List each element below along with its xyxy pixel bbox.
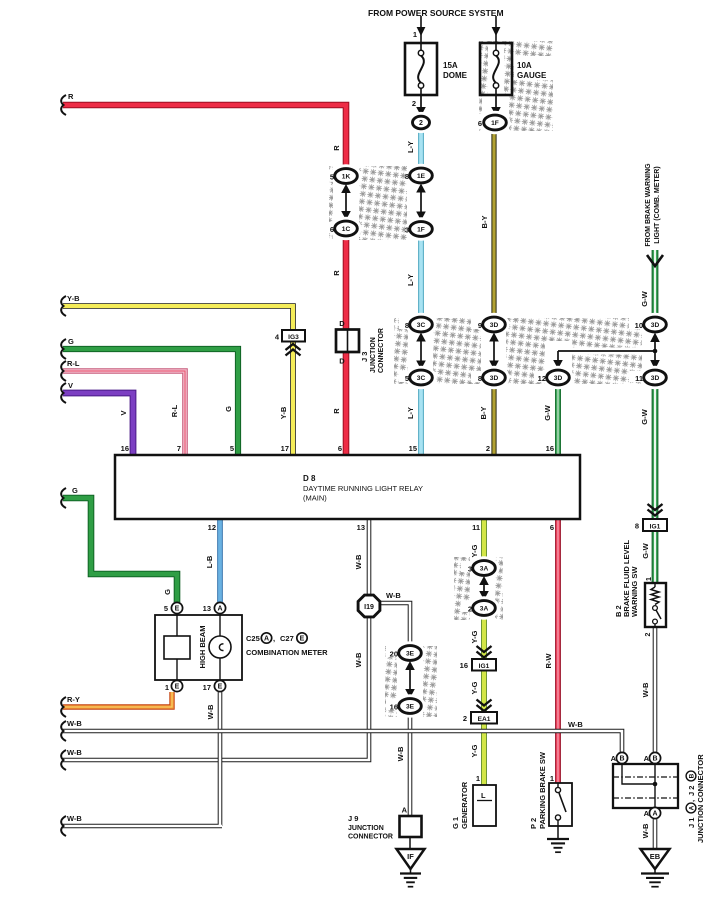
hatch patch of J3 band connectors 3C/3D — [394, 318, 667, 384]
wire V (violet) from left to relay pin 16 — [63, 393, 133, 455]
svg-text:1: 1 — [413, 30, 417, 39]
svg-text:L-Y: L-Y — [406, 274, 415, 286]
rotated wire name labels — [119, 141, 650, 838]
svg-text:W-B: W-B — [67, 748, 82, 757]
svg-text:11: 11 — [635, 374, 643, 383]
svg-text:G: G — [72, 486, 78, 495]
svg-text:D: D — [339, 319, 345, 328]
wire R (red) from left to relay pin 6 — [63, 105, 346, 455]
svg-text:1F: 1F — [417, 226, 425, 233]
svg-text:HIGH BEAM: HIGH BEAM — [198, 626, 207, 669]
svg-text:16: 16 — [460, 661, 468, 670]
svg-text:Y-G: Y-G — [470, 630, 479, 643]
svg-text:L-Y: L-Y — [406, 141, 415, 153]
svg-text:W-B: W-B — [354, 652, 363, 667]
wire W-B from junction connector A to ground EB — [653, 818, 658, 849]
svg-text:17: 17 — [203, 683, 211, 692]
link wire from 3D pin 12 to G-W line — [558, 349, 657, 354]
ground triangle IF — [397, 849, 425, 887]
svg-text:E: E — [218, 684, 223, 691]
relay top pin numbers — [121, 444, 554, 453]
svg-text:IG3: IG3 — [288, 334, 299, 341]
junction arrow between 3C connectors — [416, 333, 426, 370]
svg-text:3: 3 — [468, 565, 472, 574]
connector 5 3C on wire L-Y — [405, 368, 435, 388]
svg-text:2: 2 — [486, 444, 490, 453]
connector 11 3D on wire G-W — [635, 368, 669, 388]
svg-text:5: 5 — [230, 444, 234, 453]
wire B-Y (black-yellow) from fuse GAUGE through 3D to relay pin 2 — [491, 128, 496, 455]
connector 16 IG1 on wire Y-G — [460, 646, 496, 671]
svg-text:8: 8 — [635, 522, 639, 531]
wire W-B combination meter pin 17 down to left (horizontal 3) — [63, 692, 222, 826]
svg-text:Y-B: Y-B — [279, 406, 288, 419]
incoming arrow FROM BRAKE WARNING LIGHT — [645, 163, 663, 266]
svg-text:GENERATOR: GENERATOR — [460, 781, 469, 829]
svg-text:C27: C27 — [280, 634, 294, 643]
svg-text:J 3: J 3 — [360, 352, 369, 362]
svg-text:W-B: W-B — [641, 823, 650, 838]
svg-text:W-B: W-B — [67, 814, 82, 823]
connector 2 below DOME fuse — [410, 95, 432, 131]
svg-text:A: A — [611, 754, 617, 763]
svg-text:W-B: W-B — [396, 746, 405, 761]
svg-text:V: V — [68, 381, 73, 390]
svg-text:9: 9 — [478, 321, 482, 330]
connector 3 1F on wire L-Y — [405, 219, 435, 239]
svg-text:15: 15 — [409, 444, 417, 453]
junction connector I19 — [358, 595, 380, 617]
svg-text:3E: 3E — [406, 703, 415, 710]
svg-text:WARNING SW: WARNING SW — [630, 566, 639, 617]
svg-text:COMBINATION METER: COMBINATION METER — [246, 648, 328, 657]
svg-text:J 2: J 2 — [687, 786, 696, 796]
svg-text:8: 8 — [405, 321, 409, 330]
svg-text:1: 1 — [550, 774, 554, 783]
svg-text:1K: 1K — [342, 173, 351, 180]
svg-text:Y-G: Y-G — [470, 681, 479, 694]
svg-text:2: 2 — [468, 605, 472, 614]
svg-text:A: A — [264, 636, 269, 643]
svg-text:E: E — [300, 636, 305, 643]
svg-text:G-W: G-W — [641, 542, 650, 558]
svg-text:10: 10 — [635, 321, 643, 330]
label J1 A, J2 B JUNCTION CONNECTOR — [686, 754, 705, 843]
svg-text:JUNCTION CONNECTOR: JUNCTION CONNECTOR — [696, 754, 705, 843]
svg-text:W-B: W-B — [354, 554, 363, 569]
svg-text:8: 8 — [405, 172, 409, 181]
svg-text:(MAIN): (MAIN) — [303, 494, 327, 503]
connector 20 3E on W-B branch — [390, 643, 424, 663]
svg-text:16: 16 — [121, 444, 129, 453]
svg-text:E: E — [175, 684, 180, 691]
svg-text:W-B: W-B — [206, 704, 215, 719]
svg-text:J 9: J 9 — [348, 814, 358, 823]
svg-text:G-W: G-W — [640, 290, 649, 306]
svg-text:3E: 3E — [406, 650, 415, 657]
svg-text:D: D — [339, 357, 345, 366]
junction arrow between 1E and 1F — [416, 184, 426, 221]
svg-text:A: A — [652, 811, 657, 818]
svg-text:12: 12 — [208, 523, 216, 532]
connector 2 3A on wire Y-G — [468, 598, 498, 618]
svg-text:C25: C25 — [246, 634, 260, 643]
parking brake switch P2 — [529, 751, 572, 829]
hatch patch behind 3A connectors — [454, 557, 503, 620]
svg-text:2: 2 — [419, 120, 423, 127]
arrow from power source into DOME fuse — [417, 16, 426, 43]
generator G1 — [451, 774, 496, 829]
svg-text:15A: 15A — [443, 61, 458, 70]
svg-text:J 1: J 1 — [687, 818, 696, 828]
svg-text:EB: EB — [650, 852, 661, 861]
svg-text:3D: 3D — [490, 375, 499, 382]
wire R-Y (red-yellow) from left to combination meter pin 1 — [63, 692, 172, 707]
connector 8 3C on wire L-Y — [405, 315, 435, 335]
svg-text:W-B: W-B — [568, 720, 583, 729]
junction arrow between 3A connectors — [479, 576, 489, 600]
connector 3 3A on wire Y-G — [468, 558, 498, 578]
svg-text:6: 6 — [550, 523, 554, 532]
svg-text:EA1: EA1 — [478, 716, 491, 723]
junction connector J1/J2 pin A bottom — [644, 807, 661, 818]
svg-text:B: B — [688, 773, 695, 778]
svg-text:DOME: DOME — [443, 71, 468, 80]
hatch patch behind GAUGE fuse — [479, 41, 553, 131]
svg-text:2: 2 — [463, 714, 467, 723]
svg-text:,: , — [273, 634, 275, 643]
svg-text:L-Y: L-Y — [406, 407, 415, 419]
svg-text:CONNECTOR: CONNECTOR — [378, 328, 385, 373]
svg-text:LIGHT (COMB. METER): LIGHT (COMB. METER) — [654, 166, 661, 243]
connector 5 1K on wire R — [330, 166, 360, 186]
junction arrow between 3D connectors — [489, 333, 499, 370]
svg-text:A: A — [402, 806, 408, 815]
svg-text:3D: 3D — [490, 322, 499, 329]
junction connector J3 on wire R — [336, 319, 385, 373]
combination meter pin 13 A — [203, 602, 226, 613]
svg-text:G: G — [224, 406, 233, 412]
svg-text:R-L: R-L — [170, 404, 179, 417]
combination meter pin 5 E — [164, 602, 183, 613]
svg-text:6: 6 — [478, 119, 482, 128]
junction connector J1/J2 pin B left — [611, 752, 628, 763]
combination meter HIGH BEAM unit C25/C27 — [155, 615, 242, 680]
connector 2 EA1 on wire Y-G — [463, 700, 497, 724]
connector 8 IG1 on wire G-W — [635, 504, 667, 531]
hatch patch behind connectors 1K/1C and 1E/1F — [329, 166, 407, 240]
junction arrow between 1K and 1C — [341, 184, 351, 220]
svg-text:R: R — [332, 145, 341, 151]
connector 8 1E on wire L-Y — [405, 166, 435, 186]
horizontal W-B labels — [386, 591, 583, 729]
svg-text:5: 5 — [405, 374, 409, 383]
junction arrow between 3E connectors — [405, 661, 415, 698]
svg-text:17: 17 — [281, 444, 289, 453]
svg-text:16: 16 — [546, 444, 554, 453]
svg-text:A: A — [217, 606, 222, 613]
svg-text:11: 11 — [472, 523, 480, 532]
svg-text:12: 12 — [538, 374, 546, 383]
wire name labels at left margin — [67, 92, 82, 823]
svg-text:I19: I19 — [364, 604, 374, 611]
wire W-B from brake fluid switch B2 to junction connector B — [653, 627, 658, 753]
svg-text:GAUGE: GAUGE — [517, 71, 547, 80]
svg-text:G: G — [68, 337, 74, 346]
svg-text:7: 7 — [177, 444, 181, 453]
svg-text:G: G — [163, 589, 172, 595]
svg-text:W-B: W-B — [641, 682, 650, 697]
wire W-B from I19 down and left to frame (horizontal 2) — [63, 617, 369, 760]
svg-text:10A: 10A — [517, 61, 532, 70]
svg-text:3D: 3D — [651, 322, 660, 329]
hatch patch behind 3E connectors — [385, 646, 437, 717]
svg-text:JUNCTION: JUNCTION — [348, 825, 384, 832]
svg-text:Y-G: Y-G — [470, 744, 479, 757]
wire G-W (green-white) from 3D connector 12 to relay pin 16 — [555, 385, 561, 455]
svg-text:3D: 3D — [554, 375, 563, 382]
arrow from power source into GAUGE fuse — [492, 16, 501, 43]
connector 10 3D on wire G-W — [635, 315, 669, 335]
svg-text:3: 3 — [405, 226, 409, 235]
svg-text:IG1: IG1 — [650, 523, 661, 530]
svg-text:G-W: G-W — [640, 408, 649, 424]
wire G-W (green-white) from brake warning light down right side to IG1 and B2 — [652, 250, 659, 583]
connector 9 3D on wire B-Y — [478, 315, 508, 335]
svg-text:W-B: W-B — [386, 591, 401, 600]
svg-text:A: A — [644, 809, 650, 818]
svg-text:L-B: L-B — [205, 555, 214, 568]
svg-text:JUNCTION: JUNCTION — [370, 337, 377, 373]
svg-text:R: R — [332, 408, 341, 414]
wire Y-G (yellow-green) relay pin 11 through 3A, IG1, EA1 to generator — [481, 519, 487, 785]
svg-text:3C: 3C — [417, 322, 426, 329]
svg-text:3D: 3D — [651, 375, 660, 382]
svg-text:W-B: W-B — [67, 719, 82, 728]
svg-text:R-Y: R-Y — [67, 695, 80, 704]
wire R-W (red-white) relay pin 6 to parking brake switch — [555, 519, 561, 783]
wire L-Y (blue-yellow) from fuse DOME through 1E/1F and 3C to relay pin 15 — [418, 128, 424, 455]
svg-text:16: 16 — [390, 703, 398, 712]
svg-text:R-L: R-L — [67, 359, 80, 368]
svg-text:FROM BRAKE WARNING: FROM BRAKE WARNING — [645, 163, 652, 247]
relay bottom pin numbers — [208, 523, 554, 532]
wire G (green) from left to relay pin 5 — [63, 349, 238, 455]
relay D8 DAYTIME RUNNING LIGHT RELAY (MAIN) — [115, 455, 580, 519]
svg-text:20: 20 — [390, 650, 398, 659]
junction connector J9 — [348, 806, 422, 850]
svg-text:5: 5 — [164, 604, 168, 613]
svg-text:3C: 3C — [417, 375, 426, 382]
wire L-B (blue-black) relay pin 12 to combination meter pin 13 — [217, 519, 223, 602]
svg-text:G 1: G 1 — [451, 817, 460, 829]
wire Y-B (yellow-black) from left to IG3 and relay pin 17 — [63, 306, 293, 455]
connector 16 3E on W-B branch — [390, 696, 424, 716]
connector 6 1C on wire R — [330, 219, 360, 239]
svg-text:1: 1 — [476, 774, 480, 783]
combination meter pin 17 E — [203, 680, 226, 692]
svg-text:R: R — [332, 270, 341, 276]
svg-text:2: 2 — [412, 99, 416, 108]
svg-text:1F: 1F — [491, 120, 499, 127]
svg-text:1: 1 — [165, 683, 169, 692]
connector 6 1F below GAUGE fuse — [478, 95, 509, 133]
junction connector J1/J2 body — [613, 764, 678, 808]
svg-text:V: V — [119, 410, 128, 415]
wire W-B relay pin 13 down to junction I19 — [367, 519, 372, 595]
svg-text:G-W: G-W — [543, 404, 552, 420]
svg-text:B-Y: B-Y — [480, 216, 489, 229]
fuse 15A DOME — [405, 30, 468, 108]
svg-text:3A: 3A — [480, 565, 489, 572]
svg-text:PARKING BRAKE SW: PARKING BRAKE SW — [538, 751, 547, 829]
svg-text:A: A — [644, 754, 650, 763]
white halos over hatch — [325, 43, 667, 719]
svg-text:B: B — [652, 756, 657, 763]
svg-text:5: 5 — [330, 173, 334, 182]
ground triangle EB — [641, 849, 670, 887]
ground below parking brake switch — [547, 826, 569, 852]
svg-text:A: A — [688, 805, 695, 810]
svg-text:13: 13 — [203, 604, 211, 613]
svg-text:3A: 3A — [480, 605, 489, 612]
svg-text:13: 13 — [357, 523, 365, 532]
svg-text:D 8: D 8 — [303, 474, 316, 483]
svg-text:DAYTIME RUNNING LIGHT RELAY: DAYTIME RUNNING LIGHT RELAY — [303, 484, 423, 493]
svg-text:IG1: IG1 — [479, 663, 490, 670]
connector 8 3D on wire B-Y — [478, 368, 508, 388]
svg-text:IF: IF — [407, 852, 414, 861]
wire continuation braces at left margin — [61, 95, 66, 836]
svg-text:1C: 1C — [342, 226, 351, 233]
svg-text:Y-B: Y-B — [67, 294, 80, 303]
svg-text:8: 8 — [478, 374, 482, 383]
svg-text:FROM POWER SOURCE SYSTEM: FROM POWER SOURCE SYSTEM — [368, 8, 504, 18]
svg-text:B: B — [619, 756, 624, 763]
svg-text:6: 6 — [330, 225, 334, 234]
svg-text:B-Y: B-Y — [479, 407, 488, 420]
svg-text:E: E — [175, 606, 180, 613]
svg-text:1: 1 — [646, 577, 653, 581]
junction connector J1/J2 pin B right — [644, 752, 661, 763]
svg-text:P 2: P 2 — [529, 818, 538, 829]
svg-text:R-W: R-W — [544, 653, 553, 669]
wire W-B branch from I19 right through 3E connectors to J9 — [380, 603, 410, 816]
label C25 A, C27 E COMBINATION METER — [246, 633, 328, 657]
svg-text:Y-G: Y-G — [470, 544, 479, 557]
svg-text:6: 6 — [338, 444, 342, 453]
svg-text:CONNECTOR: CONNECTOR — [348, 834, 393, 841]
svg-text:,: , — [687, 800, 696, 802]
connector 4 IG3 on wire Y-B — [275, 330, 305, 356]
svg-text:1E: 1E — [417, 173, 426, 180]
connector 12 3D (to relay pin 16) — [538, 351, 572, 388]
fuse 10A GAUGE — [480, 43, 547, 95]
wire G (green) lower left to high beam pin 5 — [63, 498, 177, 602]
junction arrows between 10 3D and 11 3D — [650, 333, 660, 370]
wire R-L (red-blue) from left to relay pin 7 — [63, 371, 185, 455]
svg-text:L: L — [481, 791, 486, 800]
wire W-B long horizontal 1 from left to junction connector B — [63, 731, 622, 753]
brake fluid level warning switch B2 — [614, 539, 666, 636]
svg-text:2: 2 — [645, 632, 652, 636]
svg-text:R: R — [68, 92, 74, 101]
combination meter pin 1 E — [165, 680, 183, 692]
